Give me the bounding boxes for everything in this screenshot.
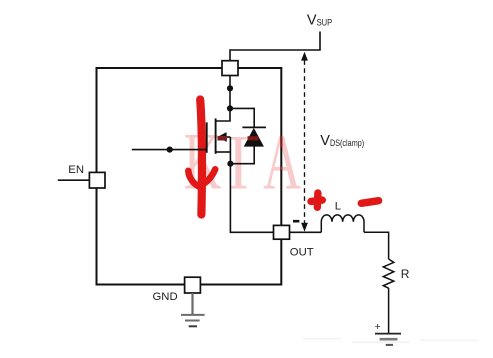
resistor R: [383, 259, 394, 288]
red minus annotation: [361, 201, 378, 204]
GND pin: [185, 277, 201, 293]
EN pin: [89, 172, 105, 188]
body diode D cathode bar: [242, 126, 266, 128]
svg-text:OUT: OUT: [290, 247, 314, 259]
internal drain wire: [216, 76, 230, 122]
top supply pin: [222, 61, 238, 76]
svg-text:GND: GND: [153, 291, 178, 303]
ground symbol lines: [181, 314, 205, 316]
svg-text:EN: EN: [68, 164, 84, 176]
transistor Q1 gate bar: [206, 122, 208, 152]
body diode D triangle: [244, 128, 264, 147]
battery / ground lines: [375, 333, 401, 335]
svg-text:L: L: [335, 201, 341, 213]
dashed line bottom arrowhead: [301, 223, 308, 232]
inductor L: [321, 215, 364, 232]
dark tint where watermark crosses arrow: [218, 136, 228, 141]
transistor Q1 channel bar: [215, 118, 217, 153]
red annotation arrow (hand-drawn, behind black wires): [188, 100, 215, 215]
source node dot: [227, 161, 233, 167]
node dot d1: [227, 85, 233, 91]
VSUP wire: [230, 32, 320, 61]
svg-text:R: R: [401, 267, 410, 281]
diode anode lead: [230, 147, 254, 164]
OUT pin: [274, 225, 290, 239]
dashed measurement line: [304, 60, 306, 224]
watermark KIA: [184, 116, 301, 207]
dark tint where watermark A crosses box edge: [280, 136, 282, 148]
transistor Q1 source stub: [216, 151, 231, 153]
diode branch wire: [230, 108, 254, 127]
dashed line top arrowhead: [301, 52, 308, 61]
dark tint where watermark crosses diode: [248, 136, 259, 140]
EN wire: [58, 179, 90, 181]
gate node dot: [167, 147, 173, 153]
GND ground lead: [191, 293, 193, 315]
minus polarity mark: [293, 220, 299, 223]
transistor Q1 right connector: [229, 137, 231, 164]
gate wire: [132, 149, 207, 151]
svg-text:+: +: [375, 321, 381, 333]
faint bottom smudges: [303, 338, 341, 340]
red plus annotation: [311, 193, 322, 207]
IC box: [97, 68, 282, 285]
resistor bottom lead: [388, 288, 390, 334]
source to OUT wire: [230, 164, 273, 233]
wire inductor to resistor: [364, 232, 389, 259]
node dot d2: [227, 105, 233, 111]
transistor Q1 body stub and arrow: [226, 136, 230, 138]
OUT wire to inductor: [290, 231, 322, 233]
